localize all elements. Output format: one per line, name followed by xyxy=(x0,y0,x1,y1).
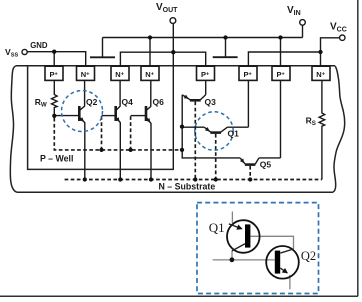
svg-text:Q5: Q5 xyxy=(260,159,272,169)
svg-text:RW: RW xyxy=(35,97,47,109)
svg-text:Q3: Q3 xyxy=(205,97,217,107)
svg-text:VSS: VSS xyxy=(5,47,18,59)
svg-text:Q2: Q2 xyxy=(301,249,316,263)
svg-text:Q6: Q6 xyxy=(153,97,165,107)
svg-text:Q4: Q4 xyxy=(122,97,134,107)
svg-text:Q1: Q1 xyxy=(228,128,240,138)
svg-text:VOUT: VOUT xyxy=(156,2,178,14)
svg-text:GND: GND xyxy=(30,41,48,50)
svg-text:VCC: VCC xyxy=(330,22,347,34)
svg-text:P – Well: P – Well xyxy=(40,153,73,163)
svg-text:Q1: Q1 xyxy=(209,220,225,235)
svg-text:VIN: VIN xyxy=(287,5,301,17)
svg-text:N – Substrate: N – Substrate xyxy=(159,181,216,191)
svg-text:RS: RS xyxy=(306,115,316,127)
svg-text:Q2: Q2 xyxy=(86,97,98,107)
